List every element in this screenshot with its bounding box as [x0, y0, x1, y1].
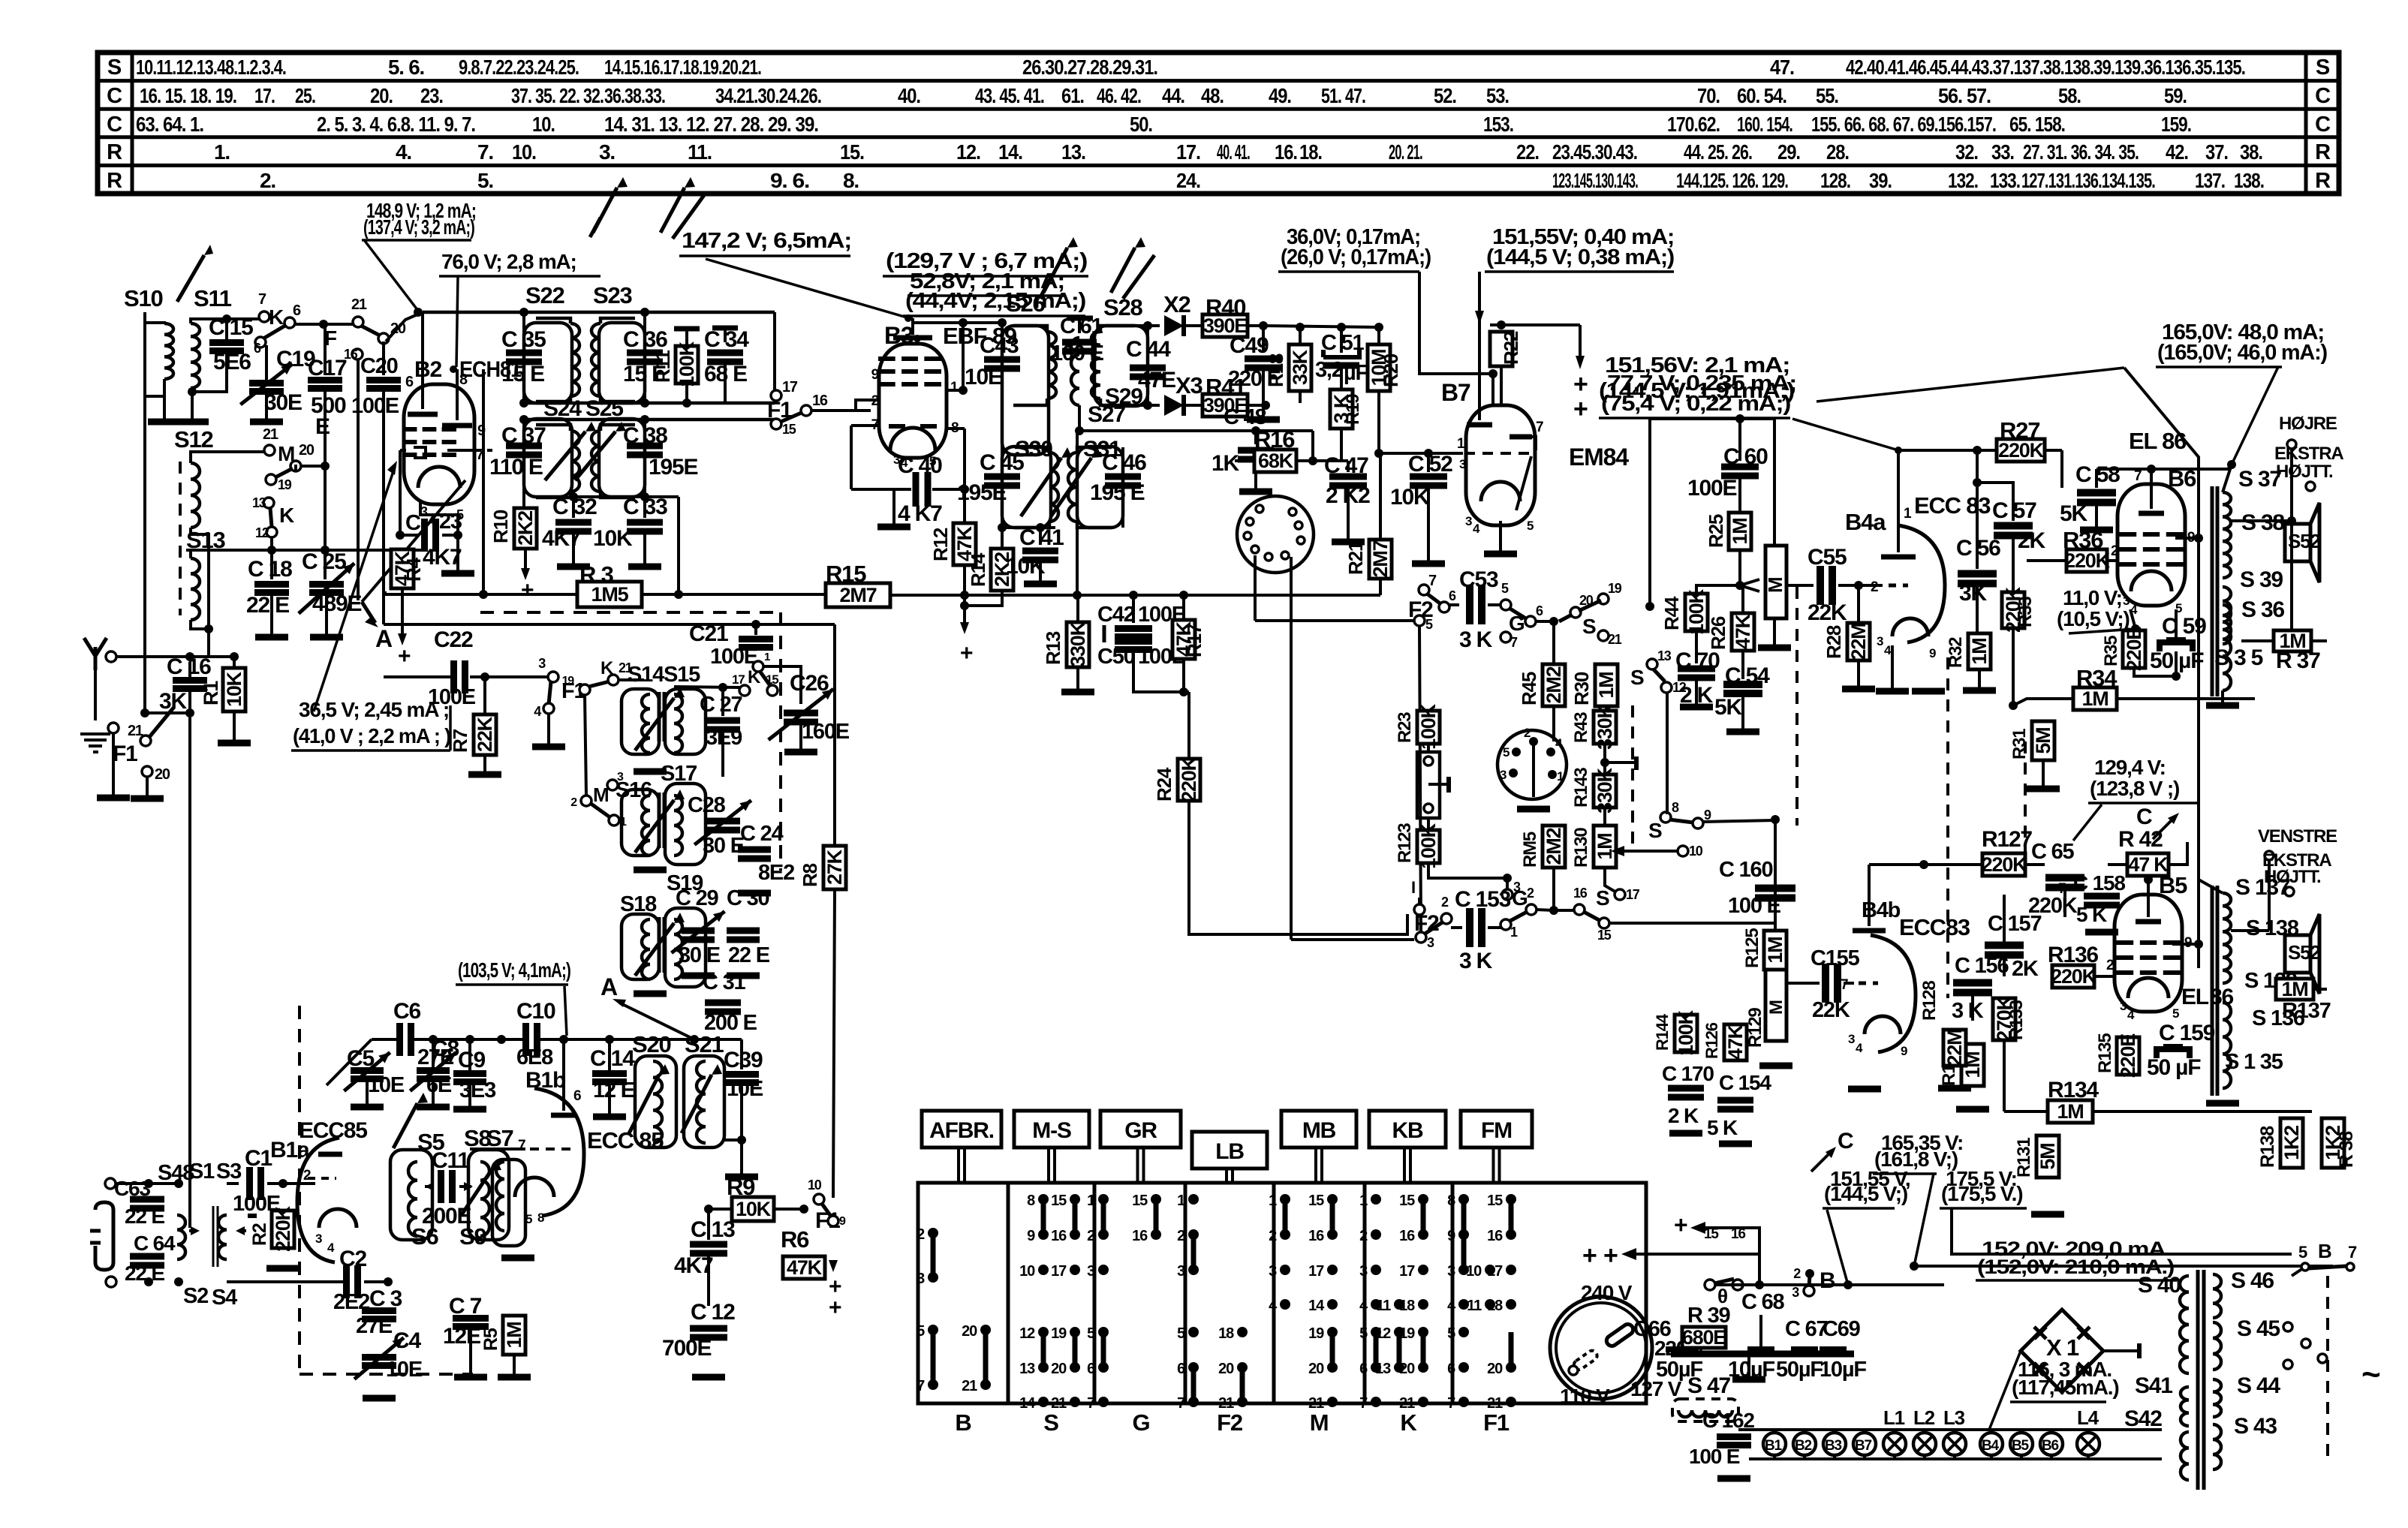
svg-text:R137: R137: [2282, 999, 2331, 1023]
svg-text:1: 1: [764, 651, 770, 663]
svg-text:S20: S20: [632, 1031, 671, 1057]
svg-text:S: S: [1648, 819, 1662, 842]
svg-text:S 37: S 37: [2238, 467, 2281, 492]
wire EL86 anode line: [2096, 465, 2232, 469]
svg-text:C 170: C 170: [1662, 1062, 1714, 1085]
svg-text:(103,5 V; 4,1mA;): (103,5 V; 4,1mA;): [458, 958, 570, 982]
resistor R132: [1961, 1044, 1984, 1086]
svg-text:M: M: [593, 784, 608, 806]
svg-text:100E: 100E: [1687, 476, 1736, 501]
tube B6 EL86: [2118, 484, 2185, 606]
svg-text:3,2: 3,2: [1315, 358, 1343, 382]
frame S21: [684, 1056, 724, 1148]
resistor R135: [2117, 1037, 2139, 1075]
svg-text:100K: 100K: [1417, 703, 1440, 749]
svg-text:1M: 1M: [1594, 833, 1616, 859]
resistor R144: [1675, 1015, 1697, 1052]
output transformer core left: [2211, 886, 2214, 1096]
resistor R11: [685, 329, 688, 346]
dashed boundary B5 mid: [2024, 741, 2027, 869]
svg-text:3: 3: [1877, 634, 1883, 648]
svg-text:22K: 22K: [1812, 998, 1850, 1022]
ground C48: [1239, 489, 1272, 495]
svg-text:220K: 220K: [1178, 756, 1200, 802]
svg-text:G: G: [1512, 886, 1528, 910]
svg-text:60. 54.: 60. 54.: [1737, 84, 1786, 107]
matrix column G contacts: [1098, 1194, 1109, 1205]
svg-text:M: M: [1766, 1000, 1786, 1015]
svg-text:6: 6: [1359, 1361, 1368, 1377]
svg-text:2K: 2K: [2018, 528, 2045, 553]
wire B2 cathode: [420, 501, 458, 534]
svg-text:15: 15: [1399, 1193, 1415, 1209]
svg-text:2: 2: [570, 796, 577, 809]
svg-text:13: 13: [1657, 648, 1672, 663]
svg-text:27. 31. 36. 34. 35.: 27. 31. 36. 34. 35.: [2023, 140, 2139, 164]
B1b cathode: [515, 1178, 554, 1197]
switch matrix frame: [918, 1183, 1646, 1403]
trimmer pot: [1417, 752, 1440, 818]
svg-text:4: 4: [1884, 643, 1892, 657]
svg-text:C20: C20: [360, 354, 398, 378]
resistor R18: [1289, 344, 1311, 391]
frame S19: [665, 908, 706, 987]
svg-text:F1: F1: [113, 741, 137, 766]
voltage selector circle: [1550, 1297, 1652, 1399]
svg-text:R131: R131: [2014, 1138, 2034, 1178]
svg-text:50.: 50.: [1130, 113, 1152, 136]
svg-text:1: 1: [950, 380, 959, 396]
svg-text:(144,5 V;): (144,5 V;): [1824, 1182, 1907, 1205]
pot wiper: [1740, 579, 1759, 585]
svg-text:C 34: C 34: [704, 327, 749, 352]
svg-text:27E: 27E: [356, 1314, 393, 1338]
wire S29 bottom to X3: [1134, 404, 1160, 407]
svg-text:S4: S4: [212, 1286, 237, 1310]
switch label box AFBR.: [922, 1111, 1001, 1148]
svg-text:12 E: 12 E: [593, 1078, 635, 1102]
leader 148V: [365, 241, 418, 311]
svg-text:S26: S26: [1006, 290, 1046, 317]
B4a cathode: [1892, 618, 1928, 636]
matrix column S contacts: [1038, 1194, 1049, 1205]
svg-text:6: 6: [405, 374, 414, 390]
svg-text:15: 15: [1051, 1193, 1067, 1209]
svg-text:100K: 100K: [1675, 1009, 1697, 1055]
svg-text:R143: R143: [1571, 768, 1591, 808]
switch label box LB: [1192, 1132, 1267, 1169]
svg-text:160. 154.: 160. 154.: [1737, 113, 1792, 136]
svg-text:18: 18: [1399, 1298, 1415, 1314]
svg-text:1M: 1M: [2081, 687, 2108, 710]
frame S8 S9: [468, 1150, 509, 1240]
svg-text:R128: R128: [1919, 981, 1940, 1021]
core arrow S10/S11: [179, 255, 204, 298]
svg-text:1M: 1M: [2281, 978, 2307, 1000]
ground S10: [148, 419, 181, 426]
node A arrow: [362, 480, 465, 602]
svg-text:+: +: [829, 1295, 841, 1320]
svg-text:16: 16: [1399, 1228, 1415, 1244]
wire B3 pin2 from F1: [817, 409, 856, 412]
svg-text:160E: 160E: [802, 720, 850, 744]
svg-text:20: 20: [1487, 1361, 1503, 1377]
folded dipole antenna: [95, 1202, 113, 1270]
svg-text:R26: R26: [1707, 616, 1729, 650]
svg-text:70.: 70.: [1697, 84, 1720, 107]
svg-text:3: 3: [1792, 1285, 1799, 1300]
svg-text:R: R: [2315, 169, 2331, 193]
resistor R12: [953, 523, 976, 565]
svg-text:3.: 3.: [599, 140, 615, 164]
svg-text:8: 8: [459, 371, 468, 388]
svg-text:19: 19: [1308, 1325, 1324, 1342]
svg-text:21: 21: [1399, 1395, 1415, 1412]
core arrows S28: [1111, 248, 1135, 293]
frame S30: [1002, 447, 1051, 528]
svg-text:17: 17: [1487, 1263, 1503, 1280]
svg-text:20. 21.: 20. 21.: [1389, 140, 1422, 164]
svg-text:B7: B7: [1855, 1438, 1872, 1454]
svg-text:42.40.41.46.45.44.43.37.137.38: 42.40.41.46.45.44.43.37.137.38.138.39.13…: [1846, 56, 2245, 79]
svg-text:S: S: [1043, 1409, 1058, 1436]
svg-text:5: 5: [1527, 519, 1534, 533]
svg-text:8: 8: [1672, 800, 1679, 815]
capacitor C15: [222, 314, 231, 323]
svg-text:10: 10: [1689, 844, 1703, 859]
resistor R28: [1857, 585, 1860, 623]
ground C33: [628, 564, 661, 570]
svg-text:4: 4: [1447, 1298, 1456, 1314]
heater B4: [1980, 1433, 2003, 1455]
svg-text:2: 2: [1527, 886, 1534, 901]
capacitor C37: [522, 420, 525, 438]
frame S26: [1002, 326, 1049, 455]
svg-text:2: 2: [1524, 726, 1531, 740]
svg-text:C6: C6: [393, 999, 420, 1024]
svg-text:FM: FM: [1481, 1118, 1512, 1143]
switch label box M-S: [1014, 1111, 1089, 1148]
capacitor C34: [724, 328, 727, 342]
svg-text:(144,5 V; 1,91mA;): (144,5 V; 1,91mA;): [1599, 379, 1795, 403]
tube B3 EBF89: [879, 344, 947, 458]
svg-text:5 K: 5 K: [1707, 1116, 1738, 1139]
svg-text:ECC 85: ECC 85: [587, 1127, 664, 1154]
svg-text:B4b: B4b: [1862, 898, 1901, 922]
wire bus y416: [423, 311, 775, 314]
svg-text:7: 7: [1841, 977, 1848, 993]
svg-text:144.125. 126. 129.: 144.125. 126. 129.: [1676, 169, 1788, 192]
svg-text:B2: B2: [1795, 1438, 1812, 1454]
svg-text:8E2: 8E2: [758, 861, 794, 885]
capacitor C23: [396, 531, 405, 540]
svg-text:C: C: [107, 84, 122, 108]
lamp L3: [1943, 1433, 1966, 1455]
svg-text:S 46: S 46: [2231, 1268, 2274, 1293]
resistor R32: [1968, 633, 1991, 669]
svg-text:1M: 1M: [1729, 518, 1751, 544]
antenna: [84, 638, 107, 670]
svg-text:2: 2: [1359, 1228, 1368, 1244]
svg-text:10.11.12.13.48.1.2.3.4.: 10.11.12.13.48.1.2.3.4.: [136, 56, 286, 79]
svg-text:R28: R28: [1823, 625, 1845, 659]
resistor R43: [1594, 711, 1616, 744]
svg-text:S: S: [107, 56, 122, 80]
svg-text:22M: 22M: [1847, 624, 1870, 660]
svg-text:5M: 5M: [2032, 727, 2054, 753]
svg-text:20: 20: [962, 1323, 977, 1340]
switch F1 contact 3-4: [548, 672, 558, 682]
svg-text:20: 20: [299, 442, 315, 459]
svg-text:2: 2: [2111, 543, 2118, 559]
S18 variable arrow: [635, 923, 674, 976]
svg-text:5K: 5K: [2060, 501, 2087, 526]
core arrows S26: [1043, 248, 1067, 293]
svg-text:10.: 10.: [512, 140, 536, 164]
svg-text:38.: 38.: [2240, 140, 2262, 164]
svg-text:1M: 1M: [2057, 1100, 2083, 1123]
svg-text:(10,5 V;): (10,5 V;): [2057, 607, 2130, 630]
svg-text:1: 1: [1359, 1193, 1368, 1209]
wire to S13 contact: [1614, 606, 1650, 607]
svg-text:58.: 58.: [2058, 84, 2081, 107]
svg-text:R25: R25: [1705, 514, 1727, 548]
capacitor C17: [324, 324, 327, 375]
svg-text:C: C: [405, 511, 421, 535]
svg-text:21: 21: [1218, 1395, 1234, 1412]
svg-text:C 68: C 68: [1741, 1290, 1785, 1314]
svg-text:C 157: C 157: [1988, 912, 2041, 936]
svg-text:L1: L1: [1883, 1406, 1905, 1429]
svg-text:34.21.30.24.26.: 34.21.30.24.26.: [715, 84, 821, 107]
svg-text:220K: 220K: [1998, 439, 2044, 462]
leader 76V: [456, 276, 458, 367]
S9 arrow: [461, 1171, 491, 1216]
svg-text:C 160: C 160: [1719, 858, 1772, 882]
resistor R10: [522, 507, 525, 510]
B1b anode: [562, 1039, 565, 1111]
svg-text:22M: 22M: [1943, 1030, 1966, 1066]
svg-text:43. 45. 41.: 43. 45. 41.: [975, 84, 1044, 107]
svg-text:7: 7: [2348, 1243, 2357, 1262]
frame S31: [1077, 447, 1123, 528]
wire top line to C1: [179, 1183, 248, 1184]
wire F1 to B3: [811, 409, 871, 412]
resistor R7: [474, 714, 496, 755]
svg-text:M-S: M-S: [1032, 1118, 1071, 1143]
svg-text:1: 1: [1557, 769, 1564, 784]
svg-text:5: 5: [1501, 581, 1509, 596]
svg-text:220E: 220E: [2123, 627, 2145, 671]
capacitor C19 variable: [265, 345, 268, 382]
capacitor C46: [1121, 447, 1124, 465]
resistor R5: [503, 1316, 525, 1355]
svg-text:1: 1: [1904, 506, 1912, 522]
svg-text:6: 6: [254, 341, 261, 356]
S30 variable arrow: [1021, 458, 1061, 516]
svg-text:C 67: C 67: [1785, 1317, 1828, 1341]
capacitor C33: [643, 497, 646, 518]
svg-text:19: 19: [278, 477, 292, 492]
wire S27 line corner: [1311, 431, 1314, 461]
heater B2: [1793, 1433, 1816, 1455]
svg-text:S42: S42: [2124, 1406, 2162, 1431]
svg-text:S41: S41: [2135, 1373, 2172, 1398]
svg-text:2: 2: [1269, 1228, 1277, 1244]
resistor R23: [1417, 711, 1440, 744]
svg-text:K: K: [748, 667, 761, 687]
svg-text:5: 5: [2172, 1006, 2179, 1021]
svg-text:R 39: R 39: [1687, 1304, 1731, 1328]
wire S39 line down: [2275, 578, 2277, 1111]
svg-text:2 K2: 2 K2: [1326, 483, 1370, 508]
frame S5 S6: [390, 1150, 432, 1240]
svg-text:5K: 5K: [1714, 695, 1742, 720]
wire 165V rail: [1910, 1262, 1919, 1271]
dashed box B1a: [298, 1006, 301, 1374]
svg-text:+: +: [1674, 1211, 1687, 1238]
svg-text:C 14: C 14: [590, 1046, 635, 1071]
capacitor C16: [188, 662, 191, 680]
svg-text:1: 1: [1269, 1193, 1277, 1209]
wire B3 pin7: [851, 424, 879, 427]
main supply line: [1651, 1284, 1710, 1286]
svg-text:R23: R23: [1395, 712, 1415, 743]
svg-text:56. 57.: 56. 57.: [1938, 84, 1991, 107]
svg-text:20: 20: [1051, 1361, 1067, 1377]
svg-text:C55: C55: [1808, 545, 1847, 570]
svg-text:C 154: C 154: [1719, 1071, 1771, 1094]
svg-text:R5: R5: [480, 1328, 501, 1351]
svg-text:3: 3: [1087, 1263, 1095, 1280]
svg-text:C43: C43: [980, 333, 1019, 358]
svg-text:C 31: C 31: [703, 970, 746, 994]
B4a anode: [1897, 450, 1900, 552]
svg-text:S 47: S 47: [1687, 1373, 1730, 1398]
svg-text:15: 15: [1597, 928, 1612, 943]
svg-text:6: 6: [293, 302, 301, 319]
svg-text:B2: B2: [414, 357, 441, 382]
wire S25 top y559: [524, 418, 776, 422]
frame S7: [492, 1160, 525, 1246]
svg-text:4.: 4.: [396, 140, 411, 164]
svg-text:2: 2: [1177, 1228, 1185, 1244]
lamp L1: [1883, 1433, 1906, 1455]
svg-text:26.30.27.28.29.31.: 26.30.27.28.29.31.: [1022, 56, 1157, 79]
S14 ground: [649, 753, 651, 770]
svg-text:C: C: [2315, 113, 2331, 137]
svg-text:10K: 10K: [1390, 485, 1430, 510]
svg-text:6: 6: [1087, 1361, 1095, 1377]
svg-text:R17: R17: [1183, 624, 1206, 657]
wire antenna to C16/R1: [116, 655, 234, 658]
svg-text:µF: µF: [1344, 361, 1368, 385]
svg-text:I: I: [1411, 878, 1415, 897]
svg-text:13: 13: [252, 495, 266, 510]
svg-text:15: 15: [782, 422, 796, 437]
svg-text:16: 16: [1308, 1228, 1324, 1244]
switch F1 lever: [149, 707, 174, 737]
svg-text:44.: 44.: [1162, 84, 1184, 107]
svg-text:3 K: 3 K: [1459, 949, 1493, 973]
svg-text:3K: 3K: [1959, 581, 1987, 606]
svg-text:S 38: S 38: [2241, 510, 2284, 535]
tube B4a half: [1898, 525, 1945, 642]
svg-text:K: K: [269, 305, 284, 329]
resistor R123: [1417, 830, 1440, 863]
svg-text:10: 10: [1019, 1263, 1035, 1280]
svg-text:14.: 14.: [998, 140, 1022, 164]
svg-text:5: 5: [1087, 1325, 1095, 1342]
svg-text:25.: 25.: [295, 84, 315, 107]
heater B3: [1823, 1433, 1846, 1455]
contact 5 lower: [1414, 615, 1425, 626]
svg-text:15: 15: [1308, 1193, 1324, 1209]
S18 ground: [649, 979, 651, 992]
svg-text:R14: R14: [967, 552, 989, 587]
switch S 8 9: [1660, 812, 1671, 823]
svg-text:15: 15: [1704, 1226, 1719, 1242]
wire AVC bus: [890, 594, 1380, 597]
svg-text:R10: R10: [489, 510, 512, 543]
svg-text:S 45: S 45: [2237, 1316, 2280, 1341]
svg-text:1: 1: [1177, 1193, 1185, 1209]
svg-text:48.: 48.: [1201, 84, 1224, 107]
svg-text:B6: B6: [2042, 1438, 2059, 1454]
wire y832 line: [384, 623, 835, 626]
svg-text:F1: F1: [1483, 1409, 1510, 1436]
lamp heater bus bottom: [1749, 1457, 2162, 1460]
svg-text:C66: C66: [1633, 1317, 1672, 1341]
tube B1b half: [534, 1088, 584, 1216]
svg-text:3: 3: [1359, 1263, 1368, 1280]
svg-text:3: 3: [1269, 1263, 1277, 1280]
dashed mains: [2326, 1276, 2329, 1463]
svg-text:S1: S1: [189, 1160, 215, 1184]
svg-text:R12: R12: [929, 528, 952, 561]
svg-text:B4: B4: [1982, 1438, 2000, 1454]
resistor R30: [1603, 636, 1606, 664]
svg-text:S8: S8: [464, 1125, 491, 1151]
resistor R125: [1764, 931, 1786, 970]
wire contact14 to C26: [763, 666, 801, 704]
capacitor C20: [382, 341, 385, 375]
ground F1: [131, 796, 164, 802]
svg-text:~: ~: [2361, 1356, 2380, 1393]
svg-text:C 59: C 59: [2162, 614, 2206, 639]
B5 cathode network: [2131, 1032, 2134, 1035]
svg-text:330K: 330K: [1594, 767, 1616, 813]
svg-text:B3: B3: [1825, 1438, 1842, 1454]
svg-text:1M: 1M: [503, 1322, 525, 1348]
svg-text:30 E: 30 E: [703, 834, 745, 858]
svg-text:3: 3: [1848, 1032, 1855, 1046]
svg-text:R1: R1: [200, 681, 222, 705]
svg-text:R6: R6: [781, 1226, 809, 1253]
contact 20: [142, 766, 152, 777]
tube B7 EM84: [1466, 405, 1535, 525]
svg-text:R2: R2: [249, 1223, 270, 1246]
wire S27 to detector line: [1078, 405, 1081, 431]
svg-text:68K: 68K: [1258, 450, 1294, 472]
svg-text:47K: 47K: [1732, 613, 1754, 649]
svg-text:B1: B1: [1765, 1438, 1783, 1454]
svg-text:S 36: S 36: [2241, 597, 2284, 622]
socket circle 2: [1497, 730, 1567, 799]
svg-text:L4: L4: [2077, 1406, 2099, 1429]
svg-text:15: 15: [1487, 1193, 1503, 1209]
svg-text:42.: 42.: [2166, 140, 2188, 164]
